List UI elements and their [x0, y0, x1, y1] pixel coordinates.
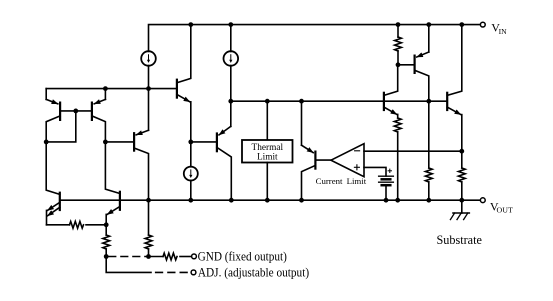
- resistor R3 (x=428.8 pulldown): [425, 101, 432, 200]
- wire: ADJ dashed segment: [156, 271, 191, 273]
- label Current Limit: [316, 176, 367, 186]
- wire: base line from node to Q4: [191, 141, 216, 143]
- node: emitter resistor junction: [104, 222, 109, 227]
- wire: base line to Q5: [105, 141, 133, 143]
- svg-text:Substrate: Substrate: [437, 233, 482, 247]
- wire: I3 bottom to output rail: [190, 180, 192, 200]
- transistor Q7 (dual emitter NPN, bandgap): [47, 193, 60, 225]
- transistor Q9 (NPN pass driver): [384, 65, 398, 118]
- wire: ADJ corner: [106, 257, 151, 273]
- resistor R8 (GND pin): [163, 253, 177, 260]
- node: mirror base tie: [73, 109, 78, 114]
- node: left bias rail junctions: [103, 86, 108, 91]
- node: drive rail junctions: [228, 99, 233, 104]
- terminal GND circle: [192, 254, 197, 259]
- node: GND line junctions: [104, 254, 109, 259]
- ground substrate symbol: [450, 200, 469, 219]
- wire: Q6 emitter node down through R6: [105, 225, 107, 235]
- label battery plus: [388, 169, 391, 172]
- transistor Q1 (PNP left of mirror): [46, 89, 92, 142]
- resistor R6: [103, 235, 110, 257]
- resistor R4 (x=461.8 sense): [458, 168, 465, 200]
- resistor R1 (top right, from VIN rail): [395, 25, 402, 65]
- terminal VIN circle: [480, 22, 485, 27]
- thermal limit block wire bottom: [266, 163, 268, 201]
- wire: Q2 collector column down to Q6 collector: [105, 142, 120, 194]
- wire: Q5 collector column down through R5: [148, 200, 150, 235]
- wire: comparator plus input to battery: [364, 167, 386, 176]
- thermal limit block wire top: [266, 101, 268, 140]
- label Thermal Limit: [252, 143, 284, 163]
- current source I1: [141, 51, 156, 66]
- wire: I1 output down to node A rail and Q5 emitter: [148, 66, 150, 131]
- node: sense line junction: [459, 149, 464, 154]
- svg-text:Current: Current: [316, 176, 343, 186]
- label VIN: [491, 21, 507, 36]
- label plus input: [354, 165, 359, 170]
- wire: bottom VOUT rail: [60, 199, 481, 201]
- svg-text:Thermal: Thermal: [252, 143, 284, 153]
- resistor R2 (Q9 emitter): [394, 118, 401, 200]
- svg-text:GND (fixed output): GND (fixed output): [198, 249, 287, 263]
- wire: top VIN rail: [149, 25, 481, 52]
- wire: GND dashed segment: [109, 256, 149, 258]
- svg-text:Limit: Limit: [347, 176, 367, 186]
- transistor Q2 (PNP right of mirror): [92, 89, 106, 142]
- transistor Q4 (PNP, emitter from I2 node): [217, 126, 231, 200]
- battery (current limit offset): [379, 176, 394, 200]
- transistor Q3 (NPN, collector to top rail): [177, 25, 191, 167]
- wire: left bias rail y=88.6: [46, 88, 176, 90]
- label minus input: [355, 150, 360, 152]
- wire: I2 top connection to rail: [230, 25, 232, 52]
- transistor Q10 (NPN output): [447, 25, 462, 168]
- wire: GND solid segment: [149, 256, 164, 258]
- svg-text:IN: IN: [499, 27, 508, 36]
- transistor Q8 (PNP driver top right): [398, 25, 429, 102]
- svg-text:ADJ. (adjustable output): ADJ. (adjustable output): [198, 265, 309, 279]
- op-amp current limit comparator triangle: [331, 144, 364, 177]
- wire: mirror base tie down to diode connection: [46, 111, 76, 142]
- wire: comparator minus input sense line: [364, 150, 462, 152]
- wire: I2 output down to drive node rail: [230, 66, 232, 127]
- label Substrate: [437, 233, 482, 247]
- wire: to GND terminal: [180, 256, 192, 258]
- current source I2: [224, 51, 239, 66]
- node: Q8 base node: [396, 62, 401, 67]
- label GND (fixed output): [198, 249, 287, 263]
- wire: Q1 collector column down to Q7: [46, 142, 60, 195]
- svg-text:OUT: OUT: [497, 206, 514, 215]
- resistor R7 (emitter resistor horizontal): [47, 221, 107, 228]
- node: bottom rail junctions: [146, 198, 151, 203]
- transistor Q5 (PNP, emitter from I1): [134, 130, 148, 200]
- node: top rail junctions: [188, 22, 193, 27]
- node: y142 base nodes: [44, 140, 49, 145]
- label VOUT: [490, 200, 513, 215]
- current source I3: [184, 167, 198, 181]
- label ADJ. (adjustable output): [198, 265, 309, 279]
- thermal limit box: [242, 140, 293, 163]
- wire: drive node rail y=101.2: [231, 100, 447, 102]
- resistor R5: [145, 235, 152, 257]
- terminal ADJ circle: [191, 270, 196, 275]
- svg-text:Limit: Limit: [257, 153, 278, 163]
- transistor Q11 (PNP current limit sense): [302, 101, 331, 200]
- transistor Q6 (NPN output stage left): [106, 192, 120, 225]
- terminal VOUT circle: [480, 198, 485, 203]
